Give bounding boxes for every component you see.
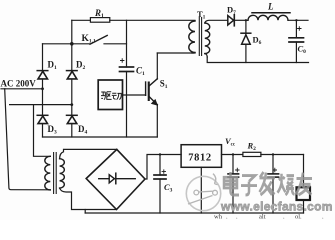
svg-text:ol.: ol. [295,214,302,221]
svg-text:K1.1: K1.1 [82,34,97,45]
svg-text:.: . [236,214,238,221]
svg-text:R2: R2 [247,141,257,153]
svg-text:alt: alt [259,214,266,221]
svg-text:T1: T1 [197,9,206,21]
svg-text:7812: 7812 [188,152,211,163]
svg-text:D6: D6 [253,35,262,47]
svg-text:C3: C3 [164,182,173,194]
svg-text:wh: wh [214,214,223,221]
svg-text:D3: D3 [48,124,58,136]
svg-text:D1: D1 [48,60,58,72]
svg-text:Vcc: Vcc [225,136,236,148]
svg-text:.: . [226,214,228,221]
svg-text:D4: D4 [78,124,88,136]
svg-text:D7: D7 [227,5,236,17]
svg-text:S1: S1 [160,79,168,91]
svg-text:C0: C0 [298,44,307,56]
svg-text:D2: D2 [76,60,86,72]
svg-text:www.elecfans.com: www.elecfans.com [220,200,333,214]
svg-text:R1: R1 [94,8,104,20]
svg-text:L: L [267,2,274,12]
svg-text:C1: C1 [136,66,145,78]
svg-text:.: . [322,214,324,221]
svg-text:AC 200V: AC 200V [1,79,37,89]
svg-text:.: . [283,214,285,221]
